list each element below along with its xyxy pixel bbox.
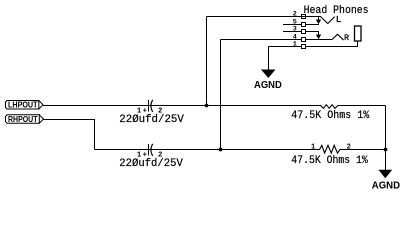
port RHPOUT	[6, 115, 40, 123]
svg-text:3: 3	[293, 25, 297, 33]
wire switch stem L	[318, 17, 320, 21]
connector pin 2 terminal	[302, 15, 306, 19]
svg-text:47.5K Ohms 1%: 47.5K Ohms 1%	[291, 110, 369, 122]
svg-text:RHPOUT: RHPOUT	[8, 115, 38, 124]
switch contact arrow R	[316, 35, 321, 40]
connector pin 5 terminal	[302, 23, 306, 27]
capacitor C2 plate 2 (curved)	[151, 144, 153, 155]
capacitor C1 plate 2 (curved)	[151, 100, 153, 111]
wire AGND-left drop	[268, 47, 270, 71]
wire pin4 long to vertical	[221, 39, 302, 41]
wire right vertical down to AGND	[385, 106, 387, 171]
capacitor C1 plate 1 (straight)	[148, 100, 150, 112]
ground AGND right arrow	[378, 170, 392, 178]
wire pin1 right to sleeve	[306, 41, 358, 47]
wire L net resistor to corner	[338, 105, 386, 107]
svg-text:2: 2	[347, 144, 351, 152]
wire pin3 right and down	[306, 32, 319, 36]
sleeve contact body	[355, 26, 362, 41]
wire pin1 left to AGND drop	[269, 46, 302, 48]
ground AGND left arrow	[261, 70, 276, 79]
wire vertical pin4 down to R net	[220, 40, 222, 150]
svg-text:22Øufd/25V: 22Øufd/25V	[119, 158, 183, 170]
wire R net bottom run	[95, 149, 320, 151]
svg-text:LHPOUT: LHPOUT	[8, 101, 38, 110]
port LHPOUT	[6, 101, 39, 110]
tip contact L (bent spring)	[321, 17, 334, 24]
wire pin5 stub	[283, 24, 302, 26]
svg-text:2: 2	[293, 10, 297, 18]
junction node L net	[205, 104, 209, 108]
connector pin 3 terminal	[302, 30, 306, 34]
svg-text:AGND: AGND	[372, 181, 400, 192]
wire pin3 stub	[283, 31, 302, 33]
wire pin2 stub	[207, 16, 306, 18]
ring contact R (bent spring)	[332, 34, 343, 39]
svg-text:1: 1	[311, 144, 315, 152]
svg-text:R: R	[344, 33, 349, 43]
capacitor C2 plate 1 (straight)	[148, 144, 150, 156]
wire pin2 right to tip contact	[306, 16, 322, 18]
connector pin 4 terminal	[302, 38, 306, 42]
connector pin 1 terminal	[302, 45, 306, 49]
resistor R2 zigzag	[320, 145, 341, 153]
wire R net tag feed	[44, 120, 95, 150]
junction node R net / pin4 vertical	[219, 148, 223, 152]
svg-text:47.5K Ohms 1%: 47.5K Ohms 1%	[291, 155, 368, 167]
wire vertical pin2 down to L net	[206, 17, 208, 106]
wire pin4 right to ring contact	[306, 39, 333, 41]
wire R net resistor to right vertical	[340, 149, 386, 151]
svg-text:L: L	[336, 14, 342, 25]
svg-text:22Øufd/25V: 22Øufd/25V	[119, 114, 184, 126]
svg-text:1: 1	[293, 40, 297, 48]
junction node right vertical / R net	[384, 148, 388, 152]
wire pin5 to switch arrow	[306, 24, 320, 26]
wire L net tag to resistor	[43, 105, 321, 107]
svg-text:AGND: AGND	[254, 80, 282, 91]
switch contact arrow L	[316, 20, 321, 25]
resistor R1 zigzag (small)	[321, 105, 339, 109]
